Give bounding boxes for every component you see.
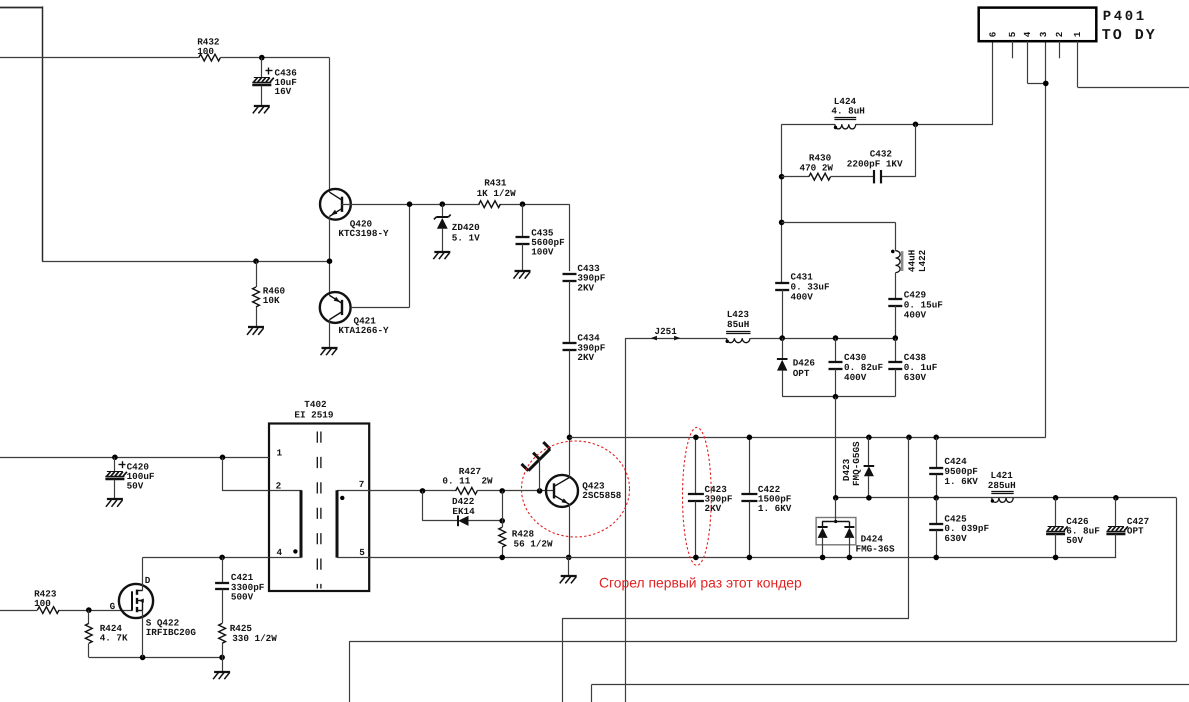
- diode D424 box: [816, 518, 856, 545]
- resistor R423: [37, 607, 59, 614]
- wire bottom rail y557: [369, 557, 1116, 559]
- diode D424: [835, 498, 837, 522]
- inductor L421: [992, 498, 1013, 503]
- transformer T402 box: [269, 424, 369, 592]
- capacitor C435: [522, 204, 524, 237]
- svg-text:100V: 100V: [531, 246, 554, 257]
- zener ZD420: [442, 204, 444, 217]
- wire P401 pin2 stub: [1059, 41, 1061, 58]
- T402 secondary winding: [337, 490, 369, 492]
- node D424 left anode: [820, 555, 826, 561]
- diode D426: [782, 338, 784, 359]
- svg-text:400V: 400V: [844, 372, 867, 383]
- node C429 bottom junction: [893, 335, 899, 341]
- svg-text:470 2W: 470 2W: [800, 162, 834, 173]
- node C422 top: [747, 435, 753, 441]
- wire top-left horizontal: [0, 7, 42, 9]
- node C422 bottom: [747, 555, 753, 561]
- node C430 top junction: [833, 335, 839, 341]
- wire Q421 base jog: [351, 307, 410, 309]
- svg-text:16V: 16V: [275, 86, 292, 97]
- wire P401 pin1: [1077, 41, 1079, 87]
- svg-text:400V: 400V: [904, 310, 927, 321]
- node C424 top junction: [933, 435, 939, 441]
- transistor Q422: [119, 584, 153, 618]
- svg-text:1: 1: [277, 448, 283, 459]
- wire base drive line: [342, 204, 480, 206]
- resistor R430: [809, 173, 831, 180]
- node Q423 collector junction: [567, 435, 573, 441]
- svg-text:2KV: 2KV: [577, 283, 594, 294]
- node source junction: [140, 655, 146, 661]
- svg-text:5: 5: [359, 547, 365, 558]
- wire source rail: [89, 657, 222, 659]
- svg-text:IRFIBC20G: IRFIBC20G: [146, 627, 197, 638]
- svg-text:ZD420: ZD420: [452, 222, 480, 233]
- node D423 top junction: [866, 435, 872, 441]
- svg-text:5: 5: [1007, 31, 1018, 37]
- svg-text:4: 4: [1022, 31, 1033, 37]
- node C424 bottom junction: [933, 495, 939, 501]
- node L424/C432 junction: [913, 122, 919, 128]
- node snubber bottom junction: [833, 394, 839, 400]
- wire P401 pin4: [1027, 41, 1029, 83]
- svg-text:2200pF 1KV: 2200pF 1KV: [847, 158, 903, 169]
- node Q423 emitter junction: [566, 555, 572, 561]
- diode D422: [457, 515, 459, 526]
- svg-text:630V: 630V: [904, 372, 927, 383]
- node R460 junction: [253, 258, 259, 264]
- node R430 junction: [779, 174, 785, 180]
- inductor L423: [727, 338, 750, 343]
- capacitor C420: [114, 457, 116, 471]
- svg-text:EI 2519: EI 2519: [294, 409, 333, 420]
- resistor R431: [479, 201, 501, 208]
- wire pin2 jog: [222, 457, 224, 491]
- ground under Q423: [568, 557, 570, 575]
- resistor R428: [502, 491, 504, 527]
- wire P401 pin5 stub: [1012, 41, 1014, 58]
- wire J251 line: [625, 338, 726, 340]
- svg-text:L422: L422: [917, 249, 928, 272]
- wire left vertical bus: [42, 6, 44, 261]
- node ZD420 junction: [440, 201, 446, 207]
- ground under C421: [222, 657, 224, 671]
- wire C429 to J-line: [895, 306, 897, 338]
- node R432/C436 junction: [259, 55, 265, 61]
- svg-text:400V: 400V: [791, 292, 814, 303]
- ground under C436: [254, 105, 270, 107]
- node pin3/pin4 junction: [1043, 81, 1049, 87]
- svg-text:330 1/2W: 330 1/2W: [232, 633, 277, 644]
- capacitor C436: [261, 58, 263, 78]
- svg-text:P401: P401: [1103, 9, 1147, 25]
- wire R430 line: [782, 176, 809, 178]
- svg-text:EK14: EK14: [452, 506, 475, 517]
- wire C430 node to D424: [835, 397, 837, 498]
- node Q423 base junction: [537, 488, 543, 494]
- svg-text:2KV: 2KV: [577, 352, 594, 363]
- wire collector rail y437: [570, 437, 1046, 439]
- node C431 bottom junction: [779, 335, 785, 341]
- svg-text:1. 6KV: 1. 6KV: [758, 503, 792, 514]
- capacitor C421: [222, 557, 224, 582]
- wire D422 branch: [422, 491, 424, 521]
- svg-text:500V: 500V: [231, 592, 254, 603]
- capacitor C429: [888, 298, 902, 300]
- svg-text:4. 7K: 4. 7K: [100, 633, 128, 644]
- capacitor C433: [563, 273, 577, 275]
- svg-text:7: 7: [359, 479, 365, 490]
- resistor R427: [456, 488, 478, 495]
- svg-text:10K: 10K: [263, 295, 280, 306]
- node D422/R428 junction: [499, 518, 505, 524]
- red circle around Q423: [522, 441, 630, 537]
- wire damper rail y497: [836, 497, 1177, 499]
- ground under Q421: [322, 347, 338, 349]
- svg-text:0. 11 2W: 0. 11 2W: [442, 476, 493, 487]
- svg-text:285uH: 285uH: [988, 480, 1016, 491]
- node pin2 jog junction: [220, 455, 226, 461]
- node C427 top junction: [1113, 495, 1119, 501]
- svg-text:85uH: 85uH: [727, 319, 749, 330]
- connector P401 box: [979, 8, 1097, 42]
- ground under ZD420: [434, 251, 450, 253]
- svg-text:FMQ-G5GS: FMQ-G5GS: [851, 441, 862, 486]
- svg-text:Сгорел первый раз этот кондер: Сгорел первый раз этот кондер: [599, 575, 802, 591]
- node C426 top junction: [1053, 495, 1059, 501]
- wire B+ feed horizontal: [0, 57, 199, 59]
- wire L422 to C429: [895, 273, 897, 300]
- capacitor C438: [895, 338, 897, 362]
- svg-text:50V: 50V: [127, 480, 144, 491]
- wire C433-C434: [569, 281, 571, 344]
- node D423 bottom junction: [866, 495, 872, 501]
- node C426 bottom junction: [1053, 555, 1059, 561]
- wire lower return 1: [592, 684, 1189, 686]
- svg-text:D: D: [145, 575, 151, 586]
- T402 primary winding: [270, 490, 302, 492]
- resistor R425: [219, 623, 226, 643]
- capacitor C423: [695, 437, 697, 494]
- wire C431 to J-line: [782, 290, 784, 338]
- svg-text:3: 3: [1038, 31, 1049, 37]
- wire pin7 line: [369, 490, 456, 492]
- svg-text:OPT: OPT: [793, 368, 810, 379]
- wire Q423 collector: [569, 437, 571, 477]
- wire supply rail y457: [0, 457, 269, 459]
- svg-text:6: 6: [988, 31, 999, 37]
- node L422 line junction: [779, 220, 785, 226]
- capacitor C425: [936, 498, 938, 524]
- node Q420/Q421 emitters: [327, 258, 333, 264]
- svg-text:FMG-36S: FMG-36S: [856, 544, 895, 555]
- wire L422 top line: [782, 222, 896, 224]
- transistor Q423: [546, 475, 578, 507]
- node C420 junction: [112, 455, 118, 461]
- red circle around C423: [683, 427, 712, 565]
- wire L424 top line: [782, 124, 835, 126]
- capacitor C430: [835, 338, 837, 362]
- node C423 top: [693, 435, 699, 441]
- wire Q422 drain: [142, 557, 144, 590]
- wire left flyback vertical: [781, 124, 783, 283]
- node pin4/C421 junction: [219, 555, 225, 561]
- svg-text:TO DY: TO DY: [1102, 27, 1157, 44]
- svg-text:KTA1266-Y: KTA1266-Y: [338, 325, 389, 336]
- transistor Q421: [320, 292, 351, 323]
- svg-text:4. 8uH: 4. 8uH: [831, 106, 864, 117]
- svg-text:J251: J251: [655, 326, 678, 337]
- node ground junction: [219, 655, 225, 661]
- svg-text:D426: D426: [793, 358, 816, 369]
- capacitor C434: [563, 342, 577, 344]
- svg-text:44uH: 44uH: [906, 250, 917, 272]
- node R428 bottom: [499, 555, 505, 561]
- svg-text:100: 100: [34, 598, 51, 609]
- svg-text:2KV: 2KV: [705, 503, 722, 514]
- svg-text:KTC3198-Y: KTC3198-Y: [338, 228, 389, 239]
- snubber marks at Q423: [528, 449, 550, 471]
- wire base rail y261: [42, 261, 330, 263]
- node D422 left junction: [420, 488, 426, 494]
- resistor R432: [199, 54, 221, 61]
- ground under R460: [248, 326, 264, 328]
- wire snubber bottom rail: [782, 396, 895, 398]
- svg-text:100: 100: [197, 46, 214, 57]
- node C423 bottom: [693, 555, 699, 561]
- diode D423: [868, 437, 870, 466]
- wire gate line: [0, 610, 37, 612]
- jumper J251 arrows: [651, 336, 657, 341]
- svg-text:1K 1/2W: 1K 1/2W: [477, 188, 516, 199]
- wire bottom return y641: [349, 641, 1176, 643]
- wire Q421 collector: [329, 320, 331, 348]
- svg-text:630V: 630V: [944, 533, 967, 544]
- transformer T402 core: [316, 432, 318, 589]
- resistor R424: [88, 610, 90, 623]
- inductor L424: [835, 124, 856, 129]
- capacitor C432: [873, 170, 875, 183]
- capacitor C427: [1115, 498, 1117, 527]
- capacitor C422: [749, 437, 751, 494]
- wire C434 to collector node: [569, 350, 571, 437]
- svg-text:4: 4: [277, 547, 283, 558]
- node down-wire top junction: [906, 435, 912, 441]
- wire Q420 emitter: [329, 216, 331, 295]
- ground under C435: [515, 270, 531, 272]
- svg-text:2: 2: [1054, 31, 1065, 37]
- transistor Q420: [320, 189, 351, 220]
- svg-text:2: 2: [276, 481, 282, 492]
- node R431/C435 junction: [520, 201, 526, 207]
- svg-text:G: G: [110, 601, 116, 612]
- node rail left junction: [833, 495, 839, 501]
- wire scan return: [908, 437, 910, 618]
- svg-text:56 1/2W: 56 1/2W: [514, 538, 553, 549]
- capacitor C424: [936, 437, 938, 468]
- capacitor C426: [1055, 498, 1057, 527]
- node D424 right anode: [847, 555, 853, 561]
- svg-text:2SC5858: 2SC5858: [582, 490, 621, 501]
- svg-text:1. 6KV: 1. 6KV: [944, 476, 978, 487]
- wire Q422 source: [142, 610, 144, 657]
- node C425 bottom junction: [933, 555, 939, 561]
- node R427/R428 junction: [499, 488, 505, 494]
- svg-text:OPT: OPT: [1127, 525, 1144, 536]
- node gate junction: [86, 607, 92, 613]
- resistor R460: [256, 261, 258, 287]
- ground under C420: [107, 498, 123, 500]
- capacitor C431: [775, 282, 789, 284]
- svg-text:5. 1V: 5. 1V: [452, 233, 480, 244]
- inductor L422: [896, 251, 901, 273]
- svg-text:1: 1: [1072, 31, 1083, 37]
- wire Q423 emitter: [569, 504, 571, 557]
- svg-text:50V: 50V: [1066, 535, 1083, 546]
- node Q421 base junction: [407, 201, 413, 207]
